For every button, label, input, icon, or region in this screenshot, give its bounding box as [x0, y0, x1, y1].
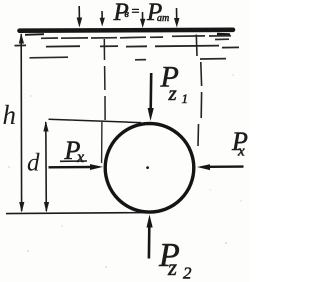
label Px right: [231, 127, 248, 160]
h dimension line: [19, 33, 25, 213]
bottom tangent line: [6, 213, 147, 214]
force Px right arrow: [197, 164, 244, 170]
liquid shading dash row B: [15, 45, 240, 47]
free surface double stroke left end: [25, 33, 44, 36]
force Pz2 arrow: [147, 215, 153, 259]
atmospheric arrow 4: [174, 8, 180, 28]
free surface double stroke right end: [217, 33, 230, 36]
atmospheric arrow 1: [77, 6, 83, 28]
liquid shading dash row A: [41, 36, 231, 40]
svg-text:x: x: [237, 144, 245, 160]
svg-text:в: в: [125, 9, 130, 20]
free surface thick line: [20, 27, 234, 33]
svg-text:z: z: [167, 255, 177, 280]
force Pz1 arrow: [148, 73, 154, 121]
svg-text:d: d: [27, 150, 40, 177]
svg-text:x: x: [76, 149, 84, 166]
sphere: [105, 124, 194, 213]
svg-text:2: 2: [183, 264, 192, 282]
label Px left: [64, 136, 85, 166]
svg-text:z: z: [168, 81, 177, 105]
left vertical tangent beside sphere: [101, 122, 103, 163]
atmospheric arrow 2: [100, 11, 105, 27]
scan speckles: [8, 74, 241, 267]
sphere center dot: [146, 166, 149, 169]
force Px left arrow: [49, 164, 104, 170]
liquid shading dash row C: [30, 57, 227, 60]
left dashed vertical tangent (above sphere): [103, 39, 106, 120]
top tangent line of sphere: [49, 119, 142, 122]
label Pz1: [160, 61, 189, 107]
label P0 = Pat: [113, 0, 170, 26]
svg-text:h: h: [3, 100, 17, 130]
svg-text:ат: ат: [157, 13, 169, 24]
svg-text:1: 1: [182, 91, 189, 106]
right dashed vertical tangent: [196, 35, 201, 147]
atmospheric arrow 3: [140, 12, 145, 28]
underline of Px left: [60, 160, 87, 162]
label Pz2: [158, 237, 192, 282]
svg-text:=: =: [132, 5, 140, 20]
d dimension line: [43, 121, 49, 213]
